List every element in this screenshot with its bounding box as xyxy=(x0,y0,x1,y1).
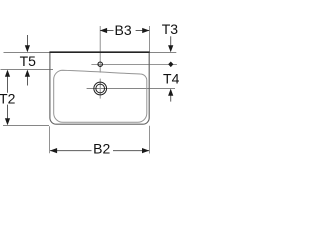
svg-text:T5: T5 xyxy=(20,53,37,69)
svg-text:T3: T3 xyxy=(162,21,179,37)
svg-text:T2: T2 xyxy=(0,90,16,106)
svg-text:T4: T4 xyxy=(163,70,180,86)
svg-text:B3: B3 xyxy=(115,22,132,38)
svg-text:B2: B2 xyxy=(93,141,110,157)
